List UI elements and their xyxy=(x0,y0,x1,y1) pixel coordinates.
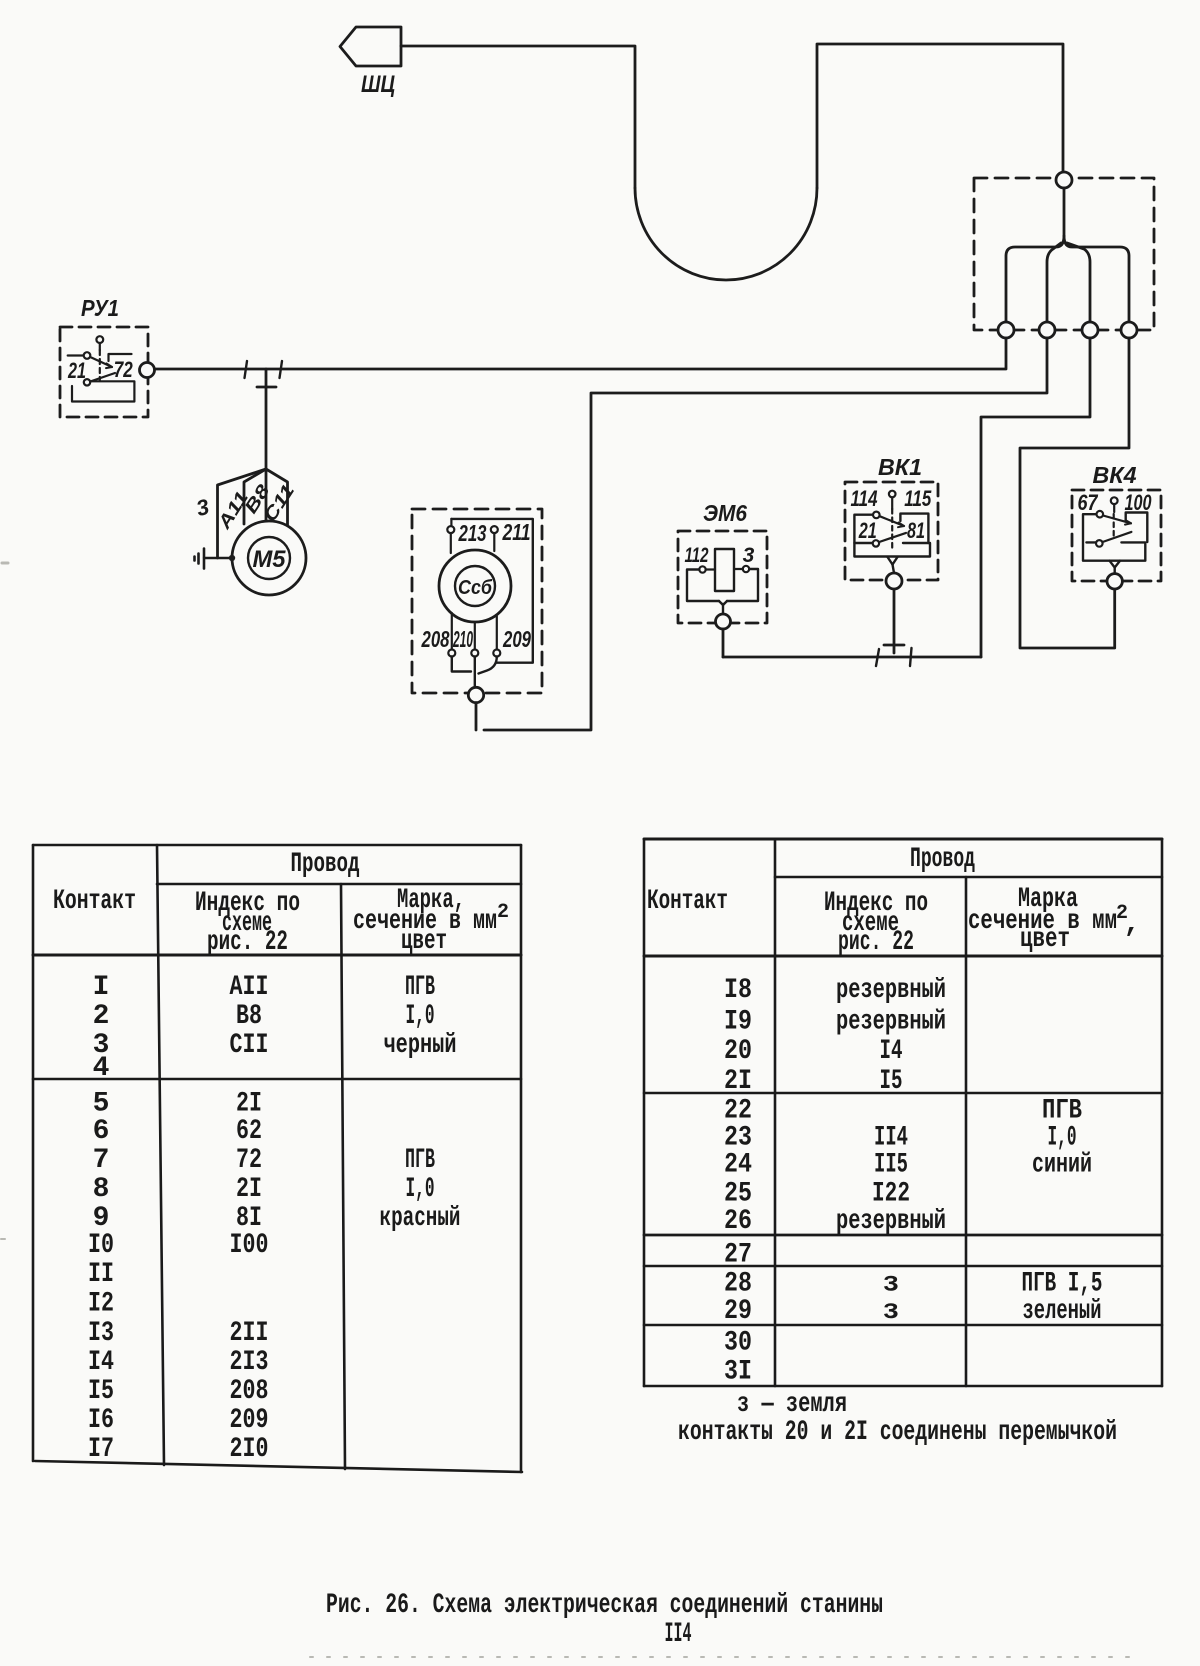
РУ1 upper contact bracket xyxy=(109,354,132,361)
svg-text:ШЦ: ШЦ xyxy=(361,71,395,98)
tick marks on ground bus xyxy=(876,648,912,666)
svg-text:резервный: резервный xyxy=(836,1007,946,1038)
svg-text:3I: 3I xyxy=(724,1357,752,1388)
tick marks on wire A xyxy=(245,361,283,378)
wire ЭМ6 junction to ground bus xyxy=(722,629,725,657)
svg-text:209: 209 xyxy=(502,626,531,652)
РУ1 top pin circle xyxy=(96,336,103,381)
svg-text:2I0: 2I0 xyxy=(230,1434,269,1465)
svg-text:резервный: резервный xyxy=(836,975,946,1006)
ВК4 stem to junction xyxy=(1110,561,1121,574)
РУ1 lower contact and arm xyxy=(84,373,115,385)
svg-text:ЭМ6: ЭМ6 xyxy=(703,500,747,526)
svg-text:100: 100 xyxy=(1125,490,1153,515)
svg-text:62: 62 xyxy=(236,1116,262,1147)
svg-text:81: 81 xyxy=(907,518,925,543)
svg-text:резервный: резервный xyxy=(836,1206,946,1237)
junction wire down to motor fan xyxy=(257,369,276,469)
svg-text:7: 7 xyxy=(93,1145,110,1176)
wire D pin4 to ВК4 xyxy=(1020,338,1129,648)
svg-text:I5: I5 xyxy=(880,1066,903,1097)
svg-text:21: 21 xyxy=(858,518,877,543)
svg-text:I2: I2 xyxy=(88,1289,114,1320)
svg-text:Ссб: Ссб xyxy=(458,577,493,599)
svg-text:Провод: Провод xyxy=(910,844,975,875)
svg-text:209: 209 xyxy=(230,1405,269,1436)
synchro junction circle xyxy=(468,687,483,702)
svg-text:I3: I3 xyxy=(88,1318,114,1349)
solenoid coil rectangle xyxy=(715,549,734,591)
svg-text:I9: I9 xyxy=(724,1007,752,1038)
svg-text:114: 114 xyxy=(851,486,878,511)
svg-text:М5: М5 xyxy=(253,546,287,573)
connector box (dashed) xyxy=(974,178,1154,330)
terminal circle pin2 xyxy=(1039,322,1055,338)
РУ1 lower box xyxy=(72,381,134,401)
svg-text:3: 3 xyxy=(194,494,212,521)
svg-text:Провод: Провод xyxy=(291,849,360,880)
svg-text:красный: красный xyxy=(380,1203,461,1234)
svg-text:Контакт: Контакт xyxy=(53,886,136,917)
wire C pin3 to ground bus xyxy=(981,338,1090,657)
terminal circle pin1 xyxy=(998,322,1014,338)
ВК4 contact box xyxy=(1083,513,1147,561)
РУ1 terminal circle xyxy=(140,363,155,378)
ЭМ6 junction circle xyxy=(716,614,731,629)
svg-text:208: 208 xyxy=(230,1376,269,1407)
synchro Ссб outer circle xyxy=(439,550,511,622)
svg-text:ВК4: ВК4 xyxy=(1093,462,1137,488)
svg-text:2: 2 xyxy=(93,1001,110,1032)
РУ1 left contact wire xyxy=(68,352,112,368)
svg-text:цвет: цвет xyxy=(401,926,447,957)
svg-text:I8: I8 xyxy=(724,975,752,1006)
svg-text:72: 72 xyxy=(236,1145,262,1176)
svg-text:I5: I5 xyxy=(88,1376,114,1407)
ВК1 top pin xyxy=(889,491,896,551)
svg-text:24: 24 xyxy=(724,1150,752,1181)
ground bus wire xyxy=(723,656,981,659)
switch ВК4 dashed box xyxy=(1072,490,1161,581)
synchro Ссб solid box xyxy=(451,519,532,663)
svg-text:зеленый: зеленый xyxy=(1023,1296,1102,1327)
svg-text:2I: 2I xyxy=(724,1066,752,1097)
left table grid xyxy=(33,845,522,1472)
svg-text:26: 26 xyxy=(724,1206,752,1237)
solenoid loop wires xyxy=(687,569,758,614)
svg-text:II: II xyxy=(88,1259,114,1290)
svg-text:3: 3 xyxy=(743,544,755,567)
svg-text:I00: I00 xyxy=(230,1230,269,1261)
svg-text:2: 2 xyxy=(497,901,509,924)
svg-text:ПГВ: ПГВ xyxy=(405,1145,435,1176)
svg-text:211: 211 xyxy=(502,519,531,545)
svg-text:210: 210 xyxy=(452,626,473,652)
svg-text:з: з xyxy=(883,1269,900,1300)
svg-text:I: I xyxy=(93,972,110,1003)
svg-text:112: 112 xyxy=(685,544,709,567)
ВК4 junction circle xyxy=(1107,574,1122,589)
svg-text:синий: синий xyxy=(1032,1150,1092,1181)
svg-text:контакты 20 и 2I соединены пер: контакты 20 и 2I соединены перемычкой xyxy=(678,1417,1117,1448)
svg-text:25: 25 xyxy=(724,1179,752,1210)
svg-text:2I: 2I xyxy=(236,1174,262,1205)
svg-text:29: 29 xyxy=(724,1296,752,1327)
wire from ШЦ through U-loop to connector box xyxy=(401,44,1063,280)
svg-text:В8: В8 xyxy=(236,1001,262,1032)
right table grid xyxy=(644,839,1162,1386)
svg-text:Контакт: Контакт xyxy=(647,886,728,917)
svg-text:I,0: I,0 xyxy=(406,1001,435,1032)
svg-text:рис. 22: рис. 22 xyxy=(838,927,914,958)
connector ШЦ plug symbol xyxy=(340,27,401,66)
ВК1 ground drop xyxy=(884,589,904,653)
ground symbol at motor xyxy=(195,549,205,569)
ВК4 top pin xyxy=(1111,497,1118,539)
terminal circle pin4 xyxy=(1121,322,1137,338)
svg-text:II5: II5 xyxy=(874,1150,908,1181)
ВК1 contact circles and arms xyxy=(873,512,906,547)
svg-text:II4: II4 xyxy=(665,1619,692,1650)
svg-text:21: 21 xyxy=(67,358,86,383)
ВК1 stem to junction xyxy=(888,557,898,573)
synchro Ссб inner circle xyxy=(455,566,495,606)
svg-text:67: 67 xyxy=(1078,490,1099,515)
svg-text:4: 4 xyxy=(93,1053,110,1084)
wire stem splitting to four branches xyxy=(1006,188,1129,322)
svg-text:I0: I0 xyxy=(88,1230,114,1261)
synchro bottom pins 208 210 209 xyxy=(448,613,500,657)
svg-text:20: 20 xyxy=(724,1036,752,1067)
svg-text:8: 8 xyxy=(93,1174,110,1205)
svg-text:рис. 22: рис. 22 xyxy=(207,927,288,958)
svg-text:5: 5 xyxy=(93,1089,110,1120)
svg-text:2I3: 2I3 xyxy=(230,1347,269,1378)
ВК1 contact box xyxy=(854,514,930,557)
motor ground wire and dot xyxy=(204,555,235,561)
ВК1 junction circle xyxy=(886,573,902,589)
svg-text:РУ1: РУ1 xyxy=(81,295,119,321)
svg-text:I4: I4 xyxy=(880,1036,903,1067)
svg-text:з: з xyxy=(883,1296,900,1327)
svg-text:28: 28 xyxy=(724,1269,752,1300)
motor М5 inner circle xyxy=(248,537,290,579)
scan artifacts bottom edge xyxy=(1,563,1140,1657)
svg-text:цвет: цвет xyxy=(1020,924,1070,955)
motor fan-out wires xyxy=(218,469,288,558)
svg-text:115: 115 xyxy=(904,486,932,511)
solenoid ЭМ6 dashed box xyxy=(678,531,767,623)
svg-text:ПГВ I,5: ПГВ I,5 xyxy=(1022,1269,1103,1300)
svg-text:208: 208 xyxy=(421,626,450,652)
wire B pin2 to Ссб junction xyxy=(484,338,1047,730)
left table header text xyxy=(53,849,509,958)
wire junction down to bus xyxy=(475,703,478,730)
svg-text:ПГВ: ПГВ xyxy=(405,972,435,1003)
svg-text:27: 27 xyxy=(724,1240,752,1271)
solenoid terminals xyxy=(699,566,749,573)
synchro Ссб dashed box xyxy=(412,509,542,693)
svg-text:30: 30 xyxy=(724,1328,752,1359)
svg-text:СII: СII xyxy=(230,1030,269,1061)
svg-text:з — земля: з — земля xyxy=(737,1389,847,1420)
motor М5 outer circle xyxy=(232,521,306,595)
wire A pin1 to РУ1 xyxy=(155,338,1006,369)
svg-text:I6: I6 xyxy=(88,1405,114,1436)
svg-text:I,0: I,0 xyxy=(406,1174,435,1205)
svg-text:АII: АII xyxy=(230,972,269,1003)
svg-text:I7: I7 xyxy=(88,1434,114,1465)
svg-text:72: 72 xyxy=(114,357,134,382)
terminal circle pin3 xyxy=(1082,322,1098,338)
svg-text:черный: черный xyxy=(384,1030,457,1061)
right table header text xyxy=(647,844,1140,958)
svg-text:,: , xyxy=(1124,909,1141,940)
svg-text:Рис. 26. Схема электрическая с: Рис. 26. Схема электрическая соединений … xyxy=(326,1590,883,1621)
svg-text:2II: 2II xyxy=(230,1318,269,1349)
svg-text:I4: I4 xyxy=(88,1347,114,1378)
ВК4 contact circles and arms xyxy=(1096,511,1131,547)
right table data rows xyxy=(724,975,1103,1388)
left table data rows xyxy=(88,972,461,1465)
synchro terminal 213 pin xyxy=(447,519,454,553)
svg-text:ВК1: ВК1 xyxy=(878,454,922,480)
relay РУ1 dashed box xyxy=(60,327,148,417)
switch ВК1 dashed box xyxy=(845,482,938,580)
synchro terminal 211 pin xyxy=(491,526,498,551)
terminal circle top of connector box xyxy=(1056,172,1072,188)
svg-text:213: 213 xyxy=(458,520,487,546)
synchro pin merge wires xyxy=(452,657,497,688)
svg-text:2I: 2I xyxy=(236,1089,262,1120)
svg-text:6: 6 xyxy=(93,1116,110,1147)
svg-text:I22: I22 xyxy=(872,1179,910,1210)
